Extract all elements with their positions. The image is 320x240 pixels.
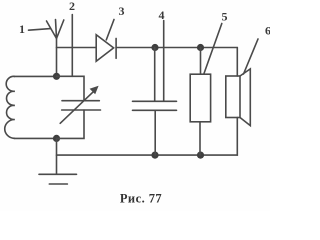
label 1 xyxy=(19,22,51,36)
wire: junction to variable capacitor top xyxy=(57,76,85,100)
junction node: coil bottom xyxy=(53,135,60,142)
wire: ground lead xyxy=(56,138,58,174)
svg-text:6: 6 xyxy=(265,24,270,38)
wire: bottom rail xyxy=(57,154,238,156)
junction node: top rail / component 5 xyxy=(197,44,204,51)
label 5 xyxy=(204,10,228,74)
wire: speaker top lead xyxy=(236,48,238,77)
wire: component 5 bottom lead xyxy=(199,122,201,155)
junction node: coil top xyxy=(53,73,60,80)
variable capacitor xyxy=(60,86,100,124)
svg-text:Рис. 77: Рис. 77 xyxy=(120,192,162,206)
capacitor 4 xyxy=(133,101,177,110)
ground xyxy=(39,174,77,184)
wire: top rail antenna to diode xyxy=(57,47,97,49)
label 4 pointer wire xyxy=(163,21,165,102)
label 4 xyxy=(159,8,165,22)
wire: capacitor 4 top lead xyxy=(154,48,156,102)
label 2 xyxy=(69,0,75,13)
wire: antenna lead down xyxy=(56,39,58,77)
wire: component 5 top lead xyxy=(200,48,202,75)
wire: coil top to junction xyxy=(14,75,57,77)
label 6 xyxy=(244,24,272,75)
wire: speaker bottom lead xyxy=(236,118,238,156)
wire: coil bottom to junction xyxy=(14,137,57,139)
label 3 xyxy=(106,4,124,40)
wire: top rail diode to right corner xyxy=(116,47,237,49)
diode 3 xyxy=(96,35,116,62)
svg-text:5: 5 xyxy=(222,10,228,24)
antenna xyxy=(47,20,64,39)
junction node: top rail / capacitor 4 xyxy=(151,44,158,51)
svg-text:1: 1 xyxy=(19,22,25,36)
wire: capacitor 4 bottom lead xyxy=(154,110,156,155)
component 5 (earphone) xyxy=(190,74,210,122)
junction node: bottom rail / component 5 xyxy=(197,152,204,159)
inductor coil L xyxy=(5,76,15,138)
wire: variable capacitor bottom return xyxy=(57,110,85,138)
label 2 pointer wire xyxy=(71,15,73,77)
svg-text:2: 2 xyxy=(69,0,75,13)
speaker 6 xyxy=(226,69,251,126)
junction node: bottom rail / capacitor 4 xyxy=(151,152,158,159)
svg-text:3: 3 xyxy=(119,4,125,18)
